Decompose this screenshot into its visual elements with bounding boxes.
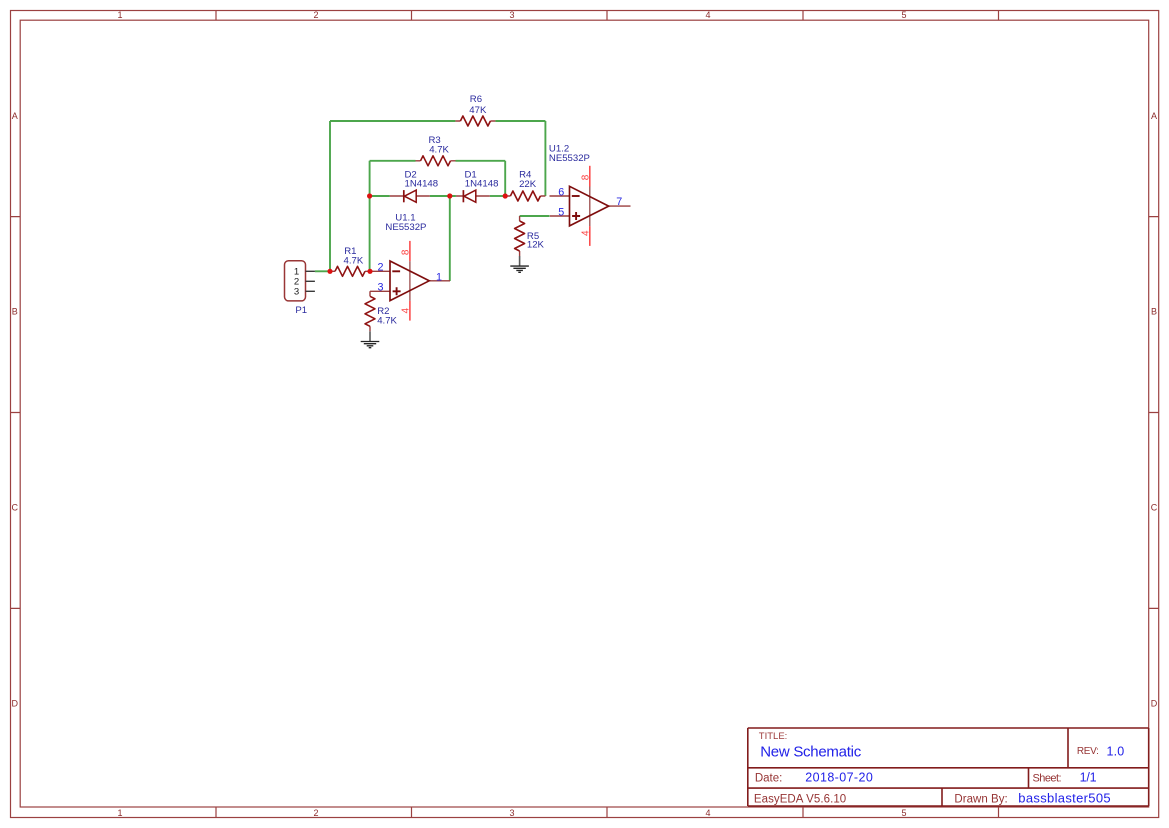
ground under R5 bbox=[510, 256, 529, 272]
resistor R2 bbox=[365, 291, 398, 331]
power pin 8 bbox=[589, 166, 591, 187]
power pin 4 bbox=[409, 301, 411, 321]
node P1/R1/R6 bbox=[327, 269, 332, 274]
resistor R3 bbox=[416, 135, 456, 166]
svg-text:3: 3 bbox=[509, 808, 514, 818]
wire diode row seg1 bbox=[370, 195, 390, 197]
wire P1 pin1 to node bbox=[315, 121, 550, 281]
wire diode row seg2 bbox=[430, 195, 456, 197]
svg-text:1: 1 bbox=[117, 10, 122, 20]
svg-text:2: 2 bbox=[313, 10, 318, 20]
triangle body bbox=[570, 186, 609, 226]
svg-text:B: B bbox=[12, 307, 18, 317]
svg-text:47K: 47K bbox=[469, 105, 487, 116]
svg-text:1.0: 1.0 bbox=[1107, 745, 1125, 759]
wire left riser to R6 row bbox=[329, 121, 331, 271]
svg-text:5: 5 bbox=[558, 207, 564, 219]
wire R6 row left bbox=[330, 120, 455, 122]
wire R3 row right bbox=[456, 160, 506, 162]
svg-text:22K: 22K bbox=[519, 179, 537, 190]
node diode row left bbox=[367, 193, 372, 198]
svg-text:C: C bbox=[12, 502, 19, 512]
svg-text:3: 3 bbox=[377, 282, 383, 294]
svg-text:7: 7 bbox=[616, 196, 622, 208]
svg-text:TITLE:: TITLE: bbox=[759, 731, 788, 742]
svg-text:4.7K: 4.7K bbox=[344, 256, 364, 267]
node diode row middle bbox=[447, 193, 452, 198]
svg-text:4: 4 bbox=[705, 808, 710, 818]
plus symbol bbox=[393, 287, 401, 295]
diode D2 bbox=[390, 170, 438, 203]
bottom ticks bbox=[216, 807, 999, 818]
svg-text:B: B bbox=[1151, 307, 1157, 317]
svg-text:Date:: Date: bbox=[755, 772, 782, 784]
svg-text:5: 5 bbox=[901, 808, 906, 818]
right ticks bbox=[1149, 217, 1159, 609]
svg-text:2: 2 bbox=[313, 808, 318, 818]
triangle body bbox=[390, 261, 429, 301]
svg-text:4.7K: 4.7K bbox=[429, 145, 449, 156]
svg-text:EasyEDA V5.6.10: EasyEDA V5.6.10 bbox=[754, 794, 846, 806]
node R1/pin2 riser bbox=[367, 269, 372, 274]
plus symbol bbox=[572, 212, 580, 220]
resistor R6 bbox=[455, 94, 495, 126]
svg-text:1: 1 bbox=[436, 272, 442, 284]
wire right riser R6 to pin6 row bbox=[544, 121, 546, 196]
svg-text:bassblaster505: bassblaster505 bbox=[1018, 790, 1110, 805]
svg-text:NE5532P: NE5532P bbox=[549, 153, 590, 164]
wire diode row seg3 bbox=[490, 195, 505, 197]
svg-text:2018-07-20: 2018-07-20 bbox=[805, 771, 873, 785]
svg-text:8: 8 bbox=[401, 249, 412, 255]
resistor R4 bbox=[505, 170, 545, 201]
svg-text:1N4148: 1N4148 bbox=[465, 178, 499, 189]
power pin 8 bbox=[409, 241, 411, 261]
svg-text:REV:: REV: bbox=[1077, 746, 1099, 757]
wire R3 right drop bbox=[504, 161, 506, 196]
svg-text:D: D bbox=[12, 699, 19, 709]
svg-text:Sheet:: Sheet: bbox=[1033, 772, 1062, 784]
minus symbol bbox=[392, 270, 400, 272]
svg-text:5: 5 bbox=[901, 10, 906, 20]
top ticks bbox=[216, 11, 999, 21]
svg-text:R6: R6 bbox=[470, 94, 482, 105]
svg-text:1N4148: 1N4148 bbox=[405, 178, 439, 189]
wire R3 row left bbox=[370, 160, 416, 162]
op-amp U1.2 bbox=[549, 144, 631, 246]
svg-text:New Schematic: New Schematic bbox=[760, 744, 862, 761]
wire pin5 row bbox=[520, 215, 550, 217]
svg-text:1: 1 bbox=[117, 808, 122, 818]
wire mid riser (R3 to pin2 node) bbox=[369, 161, 371, 271]
left ticks bbox=[11, 217, 21, 609]
wire R6 row right bbox=[495, 120, 545, 122]
op-amp U1.1 bbox=[370, 213, 450, 321]
svg-text:D: D bbox=[1151, 699, 1158, 709]
junction dots bbox=[327, 193, 507, 274]
power pin interior run bbox=[409, 261, 411, 301]
resistor R1 bbox=[330, 246, 370, 276]
ground under R2 bbox=[361, 331, 380, 347]
svg-text:2: 2 bbox=[377, 262, 383, 274]
svg-text:12K: 12K bbox=[527, 240, 545, 251]
svg-text:1/1: 1/1 bbox=[1080, 771, 1097, 785]
svg-text:4.7K: 4.7K bbox=[377, 316, 397, 327]
svg-text:C: C bbox=[1151, 502, 1158, 512]
svg-text:A: A bbox=[1151, 111, 1157, 121]
svg-text:NE5532P: NE5532P bbox=[385, 222, 426, 233]
connector P1 bbox=[285, 261, 315, 316]
svg-text:A: A bbox=[12, 111, 18, 121]
svg-text:8: 8 bbox=[580, 174, 591, 180]
svg-text:P1: P1 bbox=[295, 305, 307, 316]
minus symbol bbox=[572, 195, 580, 197]
resistor R5 bbox=[515, 216, 545, 256]
pins 6,5 and output 7 bbox=[550, 196, 631, 216]
svg-text:4: 4 bbox=[580, 230, 591, 236]
svg-text:4: 4 bbox=[705, 10, 710, 20]
node diode row right bbox=[503, 193, 508, 198]
wire U1.1 output riser bbox=[449, 196, 451, 281]
svg-text:4: 4 bbox=[401, 307, 412, 313]
power pin 4 bbox=[589, 226, 591, 246]
diode D1 bbox=[456, 170, 499, 203]
input pins 2,3 and output 1 bbox=[370, 271, 450, 291]
svg-text:6: 6 bbox=[558, 187, 564, 199]
power pin interior run bbox=[589, 187, 591, 227]
svg-text:Drawn By:: Drawn By: bbox=[954, 794, 1007, 806]
svg-text:3: 3 bbox=[509, 10, 514, 20]
svg-text:3: 3 bbox=[294, 287, 299, 298]
